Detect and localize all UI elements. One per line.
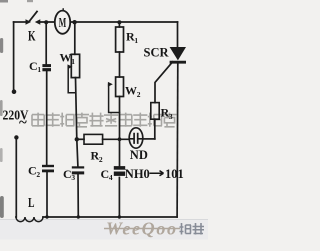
svg-text:SCR: SCR xyxy=(144,46,170,60)
svg-text:L: L xyxy=(28,195,35,210)
svg-text:ND: ND xyxy=(130,148,148,162)
svg-text:K: K xyxy=(28,29,36,45)
svg-text:101: 101 xyxy=(165,167,184,181)
svg-text:NH0: NH0 xyxy=(125,167,150,181)
svg-text:~: ~ xyxy=(19,115,27,131)
svg-text:M: M xyxy=(59,16,67,31)
